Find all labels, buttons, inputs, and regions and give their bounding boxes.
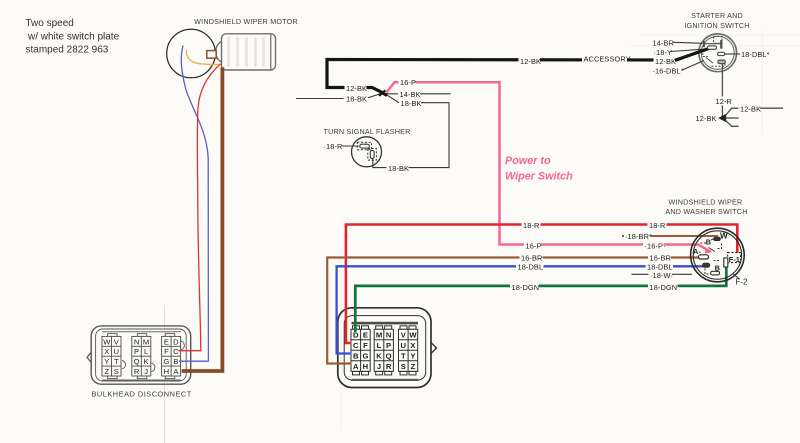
svg-text:E: E	[164, 337, 169, 346]
svg-text:A: A	[353, 362, 359, 371]
label 18-BK lower	[399, 99, 422, 108]
svg-text:W: W	[103, 337, 111, 346]
svg-text:R: R	[386, 362, 392, 371]
ignition switch terminals	[703, 36, 726, 66]
label 16-P top	[399, 78, 417, 87]
svg-text:F-2: F-2	[736, 278, 749, 287]
bulkhead pin grid 3	[162, 336, 181, 376]
note Power to Wiper Switch	[505, 155, 573, 183]
label 18-DGN mid	[510, 283, 539, 292]
svg-text:16-P: 16-P	[526, 242, 542, 251]
svg-text:WINDSHIELD WIPER MOTOR: WINDSHIELD WIPER MOTOR	[194, 17, 298, 26]
svg-text:18-BK: 18-BK	[346, 94, 367, 103]
svg-text:Y: Y	[104, 357, 109, 366]
svg-text:E: E	[363, 331, 368, 340]
ignition terminal pill over wire	[708, 46, 717, 49]
svg-text:12-BK: 12-BK	[346, 84, 367, 93]
svg-text:M: M	[376, 331, 382, 340]
wire 18-R flasher stub	[342, 145, 359, 147]
bulkhead bottom rail	[102, 379, 181, 381]
firewall pin grid 3	[399, 329, 418, 371]
svg-text:14-BK: 14-BK	[400, 90, 421, 99]
wire 18-BK to flasher	[373, 94, 449, 168]
svg-text:WINDSHIELD WIPER: WINDSHIELD WIPER	[669, 198, 743, 207]
svg-text:D: D	[173, 337, 179, 346]
svg-text:12-BK: 12-BK	[740, 104, 761, 113]
svg-text:W: W	[409, 331, 417, 340]
wire 16-P arrow tip	[705, 248, 712, 253]
svg-text:F-1: F-1	[729, 255, 740, 264]
wire 18-BK left stub	[296, 93, 383, 99]
firewall connector shell	[338, 308, 437, 388]
starter/ignition switch body	[699, 34, 737, 72]
label 12-BK at ignition	[654, 57, 677, 67]
wire 12-BK fan lower branch	[726, 120, 739, 126]
svg-text:·18-BR*: ·18-BR*	[625, 232, 652, 241]
svg-text:·16-P·: ·16-P·	[645, 242, 666, 251]
firewall pin grid 1	[351, 329, 370, 371]
svg-text:Q: Q	[134, 357, 140, 366]
svg-text:18-DBL*: 18-DBL*	[741, 50, 770, 59]
svg-text:J: J	[144, 367, 148, 376]
label 18-DBL right	[646, 262, 674, 271]
svg-text:IGNITION SWITCH: IGNITION SWITCH	[684, 21, 749, 30]
bulkhead grid tabs	[108, 334, 175, 379]
wire 12-BK accessory heavy	[327, 49, 709, 93]
svg-text:B: B	[353, 352, 359, 361]
svg-text:C: C	[173, 347, 179, 356]
svg-text:18-DBL: 18-DBL	[647, 262, 673, 271]
svg-text:12-R: 12-R	[716, 97, 732, 106]
wire 18-BR stub	[622, 235, 718, 237]
note text top-left	[26, 18, 120, 56]
svg-text:Z: Z	[411, 362, 416, 371]
firewall connector tabs	[353, 326, 417, 375]
junction arrow 12-BK fan	[718, 114, 726, 122]
svg-text:BULKHEAD DISCONNECT: BULKHEAD DISCONNECT	[92, 390, 192, 399]
wiper/washer switch body	[691, 228, 745, 282]
label 18-BR	[624, 232, 652, 241]
wire 18-Y stub	[671, 49, 704, 51]
svg-text:P: P	[134, 347, 139, 356]
svg-text:Y: Y	[410, 352, 415, 361]
wire 18-DBL blue	[337, 266, 704, 353]
label 18-BK left	[345, 94, 368, 103]
svg-text:C: C	[353, 341, 359, 350]
firewall connector bottom rail	[352, 379, 419, 381]
svg-text:18-R: 18-R	[649, 221, 665, 230]
wire yellow motor lead	[186, 50, 220, 64]
svg-text:·16-DBL*: ·16-DBL*	[653, 66, 684, 75]
wire blue motor lead to bulkhead B	[179, 46, 208, 362]
svg-text:K: K	[376, 352, 382, 361]
washer switch pin letters	[693, 232, 740, 273]
svg-text:·18-W·: ·18-W·	[650, 271, 673, 280]
svg-text:w/ white switch plate: w/ white switch plate	[27, 32, 120, 43]
wire 16-BR brown	[327, 258, 699, 364]
svg-text:16-BR: 16-BR	[650, 254, 671, 263]
washer switch terminals	[699, 237, 741, 275]
svg-text:12-BK: 12-BK	[655, 57, 676, 66]
label 12-R	[715, 97, 732, 107]
wire 14-BR stub	[673, 42, 703, 43]
svg-text:U: U	[401, 341, 407, 350]
wire 18-R red main	[346, 225, 737, 344]
label F-2 with pointer	[733, 274, 740, 280]
svg-text:12-BK: 12-BK	[520, 57, 541, 66]
bulkhead top rail	[102, 331, 181, 333]
bulkhead side bumps	[122, 341, 184, 372]
svg-text:AND WASHER SWITCH: AND WASHER SWITCH	[665, 207, 747, 216]
label 14-BR	[653, 38, 674, 47]
svg-text:L: L	[144, 347, 148, 356]
label 18-R right	[648, 221, 667, 230]
svg-text:16-P: 16-P	[400, 78, 416, 87]
svg-text:stamped 2822 963: stamped 2822 963	[26, 45, 109, 56]
wiper motor gear housing circle	[167, 29, 216, 78]
wire brown heavy motor lead to bulkhead A	[182, 67, 223, 371]
label ACCESSORY	[582, 54, 631, 64]
wire 18-DGN green	[355, 264, 726, 332]
svg-text:Z: Z	[104, 367, 109, 376]
svg-text:Q: Q	[386, 352, 392, 361]
wire 12-R down from ignition	[721, 64, 723, 116]
label 16-BR right	[648, 253, 671, 262]
svg-text:B: B	[706, 238, 711, 247]
label 18-Y	[654, 48, 673, 57]
svg-text:·18-Y: ·18-Y	[654, 48, 673, 57]
svg-text:B: B	[715, 263, 720, 272]
svg-text:J: J	[377, 362, 381, 371]
svg-text:16-BR: 16-BR	[521, 254, 542, 263]
label 18-DBL* right	[741, 50, 770, 59]
svg-text:S: S	[401, 362, 406, 371]
svg-text:·18-R: ·18-R	[324, 142, 343, 151]
label 16-DBL*	[653, 66, 684, 75]
label 16-P mid	[524, 241, 542, 250]
wire 16-P pink	[387, 82, 712, 252]
svg-text:TURN SIGNAL FLASHER: TURN SIGNAL FLASHER	[324, 127, 411, 136]
motor connector (brown square)	[207, 51, 216, 59]
svg-text:18-BK: 18-BK	[388, 164, 409, 173]
svg-text:X: X	[104, 347, 109, 356]
bulkhead pin grid 2	[132, 336, 151, 376]
svg-text:X: X	[410, 341, 415, 350]
svg-text:18-DGN: 18-DGN	[512, 283, 540, 292]
wire 12-BK fan middle branch	[726, 117, 739, 119]
wire 16-DBL stub	[683, 61, 704, 70]
firewall pin grid 2	[374, 329, 393, 371]
svg-text:R: R	[134, 367, 140, 376]
firewall connector top rail	[352, 322, 419, 325]
svg-text:W: W	[720, 232, 728, 241]
svg-text:G: G	[362, 352, 368, 361]
svg-text:F: F	[363, 341, 368, 350]
junction node X	[378, 90, 388, 96]
label 18-BK flasher bottom	[387, 164, 410, 173]
wiper motor body	[216, 34, 276, 70]
svg-text:N: N	[386, 331, 391, 340]
svg-text:G: G	[163, 357, 169, 366]
bulkhead pin grid 1	[102, 336, 121, 376]
label 12-BK near junction	[345, 84, 368, 93]
svg-text:Wiper Switch: Wiper Switch	[505, 171, 573, 183]
label 18-DGN right	[648, 283, 678, 292]
svg-text:T: T	[401, 352, 406, 361]
svg-text:STARTER AND: STARTER AND	[691, 11, 743, 20]
svg-text:18-DGN: 18-DGN	[650, 283, 678, 292]
wire 12-BK fan upper branch	[726, 108, 784, 115]
label 12-BK fan left	[696, 114, 717, 123]
svg-text:12-BK: 12-BK	[696, 114, 717, 123]
svg-text:18-DBL: 18-DBL	[518, 262, 544, 271]
svg-text:B: B	[173, 357, 178, 366]
svg-text:A-: A-	[693, 247, 701, 256]
svg-text:N: N	[134, 337, 139, 346]
wire 18-W stub	[632, 273, 693, 275]
svg-text:ACCESSORY: ACCESSORY	[584, 54, 631, 63]
label 12-BK accessory mid	[519, 57, 542, 67]
svg-text:F: F	[164, 347, 169, 356]
svg-text:Power to: Power to	[505, 155, 551, 167]
svg-text:H: H	[363, 362, 368, 371]
label 18-R mid	[522, 221, 541, 230]
label 14-BK	[398, 90, 421, 99]
label 16-BR mid	[520, 253, 543, 262]
svg-text:T: T	[114, 357, 119, 366]
bulkhead disconnect shell	[87, 326, 191, 384]
scan artifact faint lines	[341, 30, 800, 430]
label 18-R flasher	[324, 142, 343, 151]
wire 14-BK stub	[383, 92, 451, 95]
svg-text:L: L	[377, 341, 382, 350]
wire 18-DBL stub right	[725, 53, 741, 55]
svg-text:S: S	[114, 367, 119, 376]
svg-text:K: K	[144, 357, 149, 366]
label 18-DBL mid	[516, 262, 544, 271]
wire red motor lead to bulkhead C	[178, 64, 220, 351]
label 16-P right	[643, 241, 666, 250]
svg-text:14-BR: 14-BR	[653, 38, 674, 47]
svg-text:18-BK: 18-BK	[401, 99, 422, 108]
svg-text:P: P	[386, 341, 391, 350]
turn signal flasher body	[352, 137, 382, 167]
label 18-W	[649, 271, 674, 280]
svg-text:U: U	[114, 347, 119, 356]
svg-text:H: H	[164, 367, 169, 376]
svg-text:Two speed: Two speed	[26, 18, 74, 29]
label 12-BK fan right	[739, 104, 762, 113]
scan artifact magenta line	[163, 305, 165, 443]
svg-text:18-R: 18-R	[523, 221, 539, 230]
svg-text:M: M	[143, 337, 149, 346]
